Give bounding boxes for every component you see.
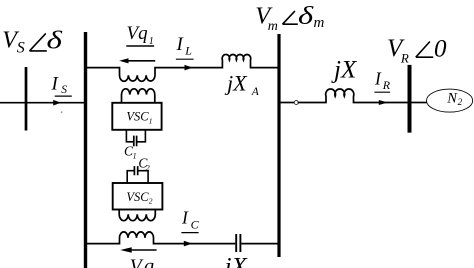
arrowhead IR [379, 100, 388, 105]
label Is [51, 73, 72, 96]
transformer T2 secondary coil [119, 210, 155, 221]
node open circle [294, 101, 298, 105]
svg-text:jX: jX [224, 70, 248, 95]
svg-text:S: S [17, 40, 25, 57]
arrowhead IC [184, 241, 192, 247]
svg-text:I: I [181, 208, 189, 228]
bottom branch wire with series transformer primary [87, 232, 236, 244]
wire capacitor to mid bus [241, 243, 278, 245]
wire VR bus to generator [412, 102, 427, 104]
label IC [181, 208, 200, 233]
svg-text:0: 0 [434, 35, 447, 62]
transformer T1 secondary coil [122, 89, 155, 103]
svg-text:m: m [268, 19, 278, 34]
arrow Vq1 [119, 58, 155, 63]
label Vq1 [126, 23, 154, 47]
svg-text:L: L [184, 43, 192, 57]
svg-text:Vq: Vq [127, 23, 149, 44]
arrowhead Is [53, 100, 61, 106]
svg-text:δ: δ [47, 27, 64, 55]
svg-text:V: V [130, 257, 144, 268]
svg-text:A: A [251, 86, 260, 98]
svg-text:N: N [446, 90, 458, 106]
svg-text:1: 1 [149, 116, 153, 125]
generator N2 ellipse [427, 89, 473, 112]
bus VR [408, 65, 412, 133]
label C1 [124, 143, 137, 160]
label VR angle 0 [387, 35, 447, 66]
svg-text:δ: δ [298, 2, 314, 30]
stray dot [61, 111, 63, 113]
svg-text:S: S [61, 84, 67, 96]
converter VSC1 box [112, 103, 161, 130]
svg-text:jX: jX [331, 57, 358, 84]
svg-text:2: 2 [458, 97, 463, 107]
wire source to left bus [0, 102, 84, 104]
DC link of VSC2 with capacitor C2 [127, 171, 148, 183]
arrow Vq [120, 247, 156, 253]
DC link of VSC1 with capacitor C1 [126, 130, 145, 142]
svg-text:C: C [191, 218, 200, 232]
svg-text:R: R [382, 78, 391, 92]
series capacitor jXc plates [236, 234, 240, 252]
label IL [176, 34, 194, 59]
left bus bar [84, 32, 87, 268]
svg-text:jX: jX [222, 254, 249, 268]
top branch wire with series transformer primary and reactor jXA [87, 54, 279, 81]
svg-text:VSC: VSC [126, 110, 149, 124]
mid bus bar [277, 34, 280, 257]
arrowhead IL [185, 65, 193, 71]
svg-text:VSC: VSC [126, 190, 149, 204]
svg-text:m: m [314, 15, 325, 31]
label Vm angle delta m [255, 2, 324, 33]
svg-text:q: q [144, 256, 154, 268]
label Vs angle delta [2, 27, 63, 57]
label jXA [224, 70, 260, 97]
svg-text:R: R [400, 51, 409, 66]
converter VSC2 box [113, 183, 163, 210]
source bus bar [25, 67, 28, 131]
reactor jX and wire to VR bus [298, 89, 408, 102]
label C2 [138, 156, 149, 173]
wire mid bus to reactor jX [281, 102, 295, 104]
svg-text:I: I [374, 69, 382, 89]
svg-text:2: 2 [149, 197, 153, 206]
svg-text:1: 1 [133, 151, 137, 160]
label IR [374, 69, 391, 93]
